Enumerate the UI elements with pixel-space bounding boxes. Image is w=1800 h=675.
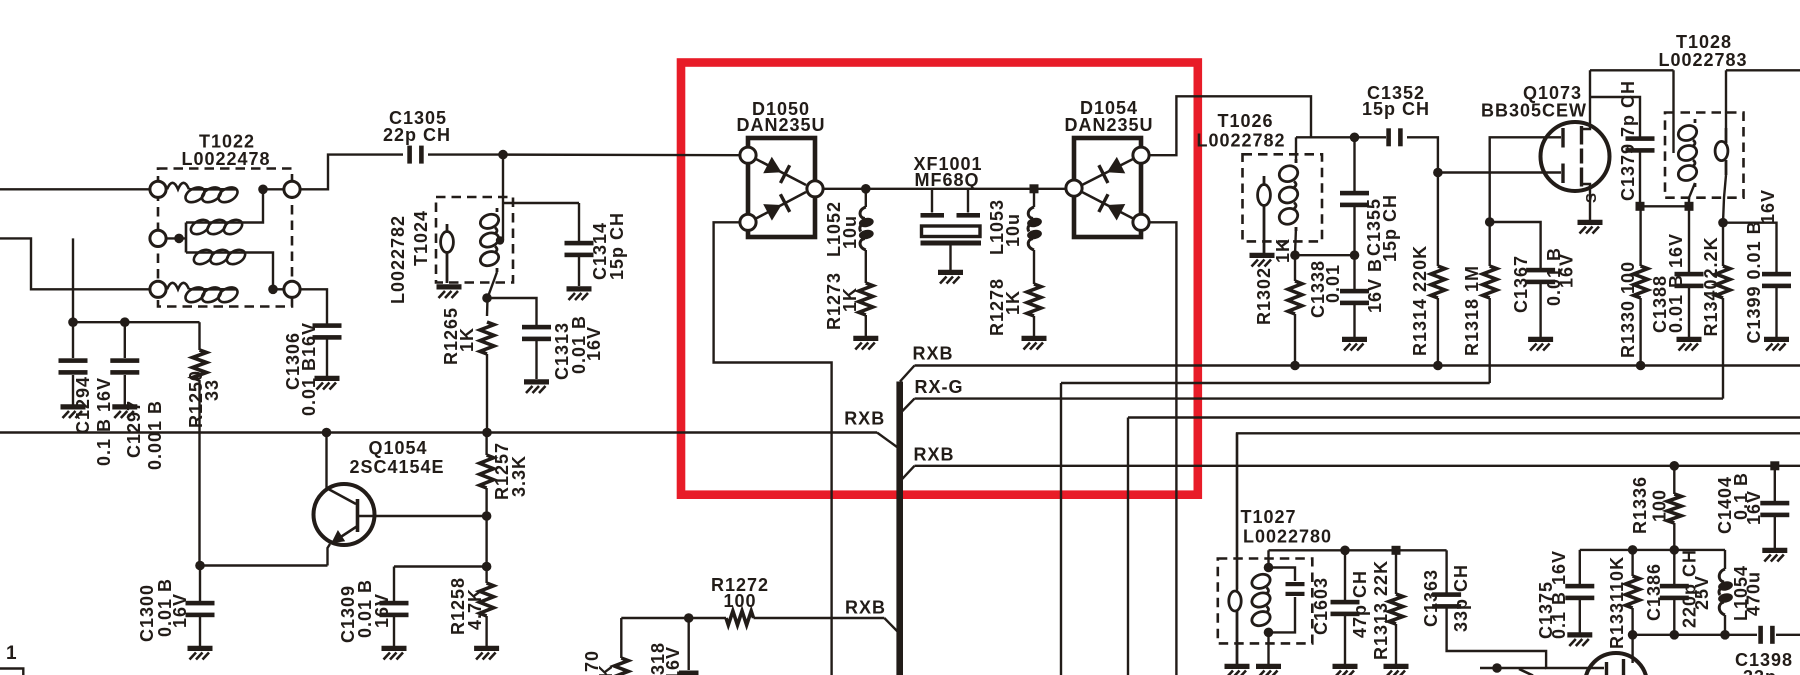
- bus thick RX line: [896, 382, 903, 675]
- svg-text:0.01 B 16V: 0.01 B 16V: [1666, 233, 1686, 333]
- svg-text:16V: 16V: [584, 326, 604, 361]
- transformer T1022 middle winding: [166, 237, 186, 239]
- wire C1379 node link: [1640, 205, 1689, 207]
- ground T1026: [1250, 255, 1275, 266]
- node dot bottom transistor: [1492, 663, 1502, 673]
- svg-text:16V: 16V: [170, 593, 190, 628]
- svg-text:10u: 10u: [1003, 213, 1023, 247]
- wire mid vertical net: [1060, 383, 1062, 675]
- svg-text:2SC4154E: 2SC4154E: [349, 457, 444, 477]
- svg-text:C1363: C1363: [1421, 569, 1441, 627]
- svg-text:L0022783: L0022783: [1658, 50, 1747, 70]
- wire vertical net x1128: [1127, 418, 1129, 675]
- svg-text:RXB: RXB: [844, 409, 885, 429]
- node dot C1318: [684, 613, 694, 623]
- wire Q1073 drain: [1582, 70, 1591, 129]
- svg-text:C1300: C1300: [137, 584, 157, 642]
- node square C1379 bottom: [1636, 202, 1645, 211]
- wire RXB bottom diagonal: [884, 618, 900, 635]
- svg-text:DAN235U: DAN235U: [736, 115, 825, 135]
- wire RX-G diagonal: [900, 399, 915, 414]
- node square C1404 top: [1770, 461, 1779, 470]
- transformer T1028 secondary loop: [1725, 70, 1727, 128]
- ground XF1001: [938, 272, 963, 283]
- wire T1028 top right: [1726, 69, 1800, 71]
- wire bias to C1367: [1490, 222, 1541, 268]
- node dot R1336 top: [1670, 461, 1680, 471]
- ground C1375: [1567, 635, 1592, 646]
- wire to R1270: [620, 618, 622, 658]
- wire to C1399: [1723, 223, 1777, 272]
- node dot L1052: [861, 184, 871, 194]
- svg-text:15p CH: 15p CH: [1380, 194, 1400, 262]
- wire T1027 output net: [1269, 549, 1447, 551]
- diode D1054 upper diode: [1082, 159, 1134, 186]
- sheet corner box: [0, 669, 23, 675]
- svg-text:R1302: R1302: [1254, 267, 1274, 325]
- wire horizontal net y417: [1128, 416, 1800, 418]
- node dot base net: [482, 511, 492, 521]
- svg-text:R1336: R1336: [1630, 476, 1650, 534]
- transformer T1024 primary loop: [446, 224, 449, 233]
- wire T1028 left lead: [1672, 70, 1674, 153]
- transformer T1026 secondary winding: [1277, 159, 1300, 231]
- node dot T1024 bottom: [482, 293, 492, 303]
- ground T1027 left: [1225, 666, 1250, 675]
- wire T1028 primary bottom: [1689, 183, 1695, 206]
- svg-text:33p: 33p: [1743, 667, 1777, 675]
- svg-text:RXB: RXB: [845, 598, 886, 618]
- node dot R1302 bottom: [1290, 361, 1300, 371]
- node dot L1054 bottom: [1720, 630, 1730, 640]
- node dot T1028 out: [1718, 218, 1728, 228]
- ground C1309: [382, 648, 407, 659]
- svg-text:BB305CEW: BB305CEW: [1481, 101, 1587, 121]
- diode D1050 upper diode: [755, 159, 806, 186]
- wire cap bank bus: [73, 321, 200, 323]
- transistor bottom partial emitter: [1519, 669, 1533, 675]
- transformer T1022 primary winding: [167, 183, 240, 205]
- node dot R1331 bottom: [1628, 630, 1638, 640]
- ground Q1073 source: [1578, 222, 1603, 233]
- node dot emitter-res net: [482, 562, 492, 572]
- terminal pins T1022: [150, 181, 166, 197]
- node dot R1331 top: [1628, 545, 1638, 555]
- svg-text:1K: 1K: [1273, 238, 1293, 263]
- svg-text:C1386: C1386: [1644, 563, 1664, 621]
- transformer T1028 dashed box: [1665, 113, 1744, 198]
- wire RX-G: [915, 397, 1724, 399]
- wire tap to C1314: [503, 202, 579, 204]
- svg-text:1K: 1K: [1003, 290, 1023, 315]
- diode D1050 pins: [740, 147, 756, 163]
- ground C1300: [188, 648, 213, 659]
- wire input second: [0, 238, 150, 289]
- svg-text:T1026: T1026: [1217, 111, 1273, 131]
- svg-text:RX-G: RX-G: [915, 377, 964, 397]
- wire emitter to C1300: [200, 564, 328, 566]
- node dot C1297: [120, 317, 130, 327]
- svg-text:10u: 10u: [840, 215, 860, 249]
- wire RXB-3: [915, 465, 1800, 467]
- node square T1028 bottom: [1685, 202, 1694, 211]
- wire T1028 secondary bottom: [1723, 175, 1726, 223]
- transformer T1027 primary loop: [1236, 433, 1238, 592]
- svg-text:R1314 220K: R1314 220K: [1410, 245, 1430, 356]
- svg-text:1K: 1K: [457, 327, 477, 352]
- svg-text:RXB: RXB: [913, 445, 954, 465]
- ground C1313: [524, 382, 549, 393]
- transformer T1024 secondary winding: [478, 208, 500, 272]
- wire T1022 out to C1306: [300, 289, 327, 324]
- wire T1024 secondary to node: [487, 272, 497, 316]
- wire R1272 net: [621, 617, 726, 619]
- node dot R1330 bottom: [1636, 361, 1646, 371]
- svg-text:T1028: T1028: [1676, 32, 1732, 52]
- svg-text:T1024: T1024: [411, 210, 431, 266]
- wire gate2: [1490, 137, 1561, 222]
- svg-text:DAN235U: DAN235U: [1064, 115, 1153, 135]
- node dot T1026 bottom: [1290, 250, 1300, 260]
- resistor R1330 body: [1639, 206, 1641, 266]
- ground C1314: [567, 289, 592, 300]
- transformer T1028 primary winding: [1676, 119, 1699, 187]
- wire long horizontal net: [0, 431, 877, 433]
- node dot T1027 top: [1264, 563, 1274, 573]
- svg-text:R133110K: R133110K: [1607, 556, 1627, 649]
- ground C1297: [112, 407, 137, 418]
- node dot R1314 bottom: [1433, 361, 1443, 371]
- diode D1054 pins: [1066, 180, 1082, 196]
- wire base: [358, 515, 487, 517]
- diode D1050 lower diode: [755, 192, 806, 219]
- ground C1399: [1764, 339, 1789, 350]
- transformer T1027 secondary winding: [1250, 568, 1272, 632]
- svg-text:L0022780: L0022780: [1243, 527, 1332, 547]
- wire bottom transistor base: [1480, 667, 1546, 669]
- transformer T1024 dashed box: [436, 197, 513, 283]
- ground R1258: [474, 648, 499, 659]
- wire RXB-1: [915, 364, 1800, 366]
- ground C1603: [1333, 666, 1358, 675]
- transformer T1027 dashed box: [1218, 559, 1313, 644]
- wire D1054 bottom-right long vertical: [1149, 222, 1176, 675]
- transformer T1026 dashed box: [1243, 154, 1323, 241]
- svg-text:16V: 16V: [1557, 253, 1577, 288]
- wire node to D1050: [503, 153, 740, 156]
- node square L1053: [1030, 184, 1039, 193]
- svg-text:22p CH: 22p CH: [383, 125, 451, 145]
- diode D1054 lower diode: [1082, 192, 1134, 219]
- svg-text:L0022782: L0022782: [388, 215, 408, 304]
- svg-text:RXB: RXB: [912, 344, 953, 364]
- ground T1027 right: [1256, 666, 1281, 675]
- wire RXB-1 diagonal: [900, 366, 915, 382]
- svg-text:C1603: C1603: [1311, 577, 1331, 635]
- diode D1054 package box: [1074, 138, 1141, 237]
- ground T1024: [437, 287, 462, 298]
- node dot C1603: [1340, 546, 1350, 556]
- svg-text:L0022478: L0022478: [181, 149, 270, 169]
- node dot T1024 feed: [496, 236, 504, 244]
- wire C1305 to node: [428, 153, 503, 155]
- node dot C1305 out: [498, 150, 508, 160]
- node dot C1355 bottom: [1350, 250, 1360, 260]
- filter XF1001: [931, 189, 933, 213]
- ground C1388: [1677, 339, 1702, 350]
- node dot T1022 primary: [258, 185, 268, 195]
- svg-text:100: 100: [1650, 489, 1670, 522]
- capacitor T1027 internal: [1269, 568, 1296, 582]
- wire gate2 return: [1061, 382, 1490, 384]
- svg-text:MF68Q: MF68Q: [914, 170, 979, 190]
- node dot T1027 bottom: [1264, 628, 1274, 638]
- ground R1278: [1022, 338, 1047, 349]
- wire node to C1313: [487, 298, 537, 327]
- wire C1352 to junction: [1407, 137, 1438, 172]
- svg-text:R1318 1M: R1318 1M: [1462, 265, 1482, 356]
- svg-text:15p CH: 15p CH: [607, 212, 627, 280]
- wire gate1: [1438, 171, 1561, 173]
- ground R1313: [1384, 666, 1409, 675]
- wire T1022 to C1305: [300, 155, 403, 190]
- node dot C1294: [68, 317, 78, 327]
- node dot emitter: [195, 561, 205, 571]
- diode D1050 package box: [748, 138, 815, 237]
- wire D1050 output: [823, 188, 1065, 190]
- svg-text:C1399 0.01 B: C1399 0.01 B: [1744, 220, 1764, 343]
- wire RXB-3 diagonal: [900, 466, 915, 482]
- svg-text:3.3K: 3.3K: [509, 455, 529, 497]
- transistor Q1054: [314, 484, 375, 545]
- wire node to C1355 node: [1295, 254, 1355, 256]
- svg-text:16V: 16V: [372, 593, 392, 628]
- wire corner net to T1027: [1237, 433, 1800, 589]
- node dot collector net: [322, 428, 332, 438]
- node dot C1386 top: [1670, 545, 1680, 555]
- wire input top-left: [0, 188, 151, 190]
- svg-text:0.1 B 16V: 0.1 B 16V: [94, 377, 114, 466]
- svg-text:1: 1: [6, 643, 18, 664]
- ground C1306: [315, 378, 340, 389]
- ground R1273: [853, 338, 878, 349]
- wire T1027 bottom lead: [1267, 628, 1269, 665]
- wire D1054 top-right to T1026: [1149, 96, 1311, 155]
- transformer T1026 primary loop: [1263, 176, 1266, 186]
- ground C1294: [61, 407, 86, 418]
- svg-text:S: S: [1583, 192, 1600, 203]
- node dot R1265-R1257 net: [482, 428, 492, 438]
- red highlight box: [681, 63, 1198, 495]
- node dot C1355 top: [1350, 133, 1360, 143]
- wire drain to T1028: [1590, 69, 1674, 71]
- node square R1313: [1392, 546, 1401, 555]
- wire T1027 top lead: [1267, 550, 1269, 572]
- node dot T1022 bottom: [268, 285, 278, 295]
- svg-text:4.7K: 4.7K: [465, 588, 485, 630]
- node dot T1022 middle tap: [174, 234, 184, 244]
- wire T1022 mid to cap bank: [72, 238, 74, 322]
- wire IF net y137: [1296, 136, 1386, 138]
- svg-text:16V: 16V: [1758, 189, 1778, 224]
- svg-text:15p CH: 15p CH: [1362, 99, 1430, 119]
- wire node down to T1024: [502, 155, 504, 240]
- node dot C1386 bottom: [1670, 630, 1680, 640]
- transistor Q1073: [1541, 122, 1610, 191]
- ground C1404: [1762, 550, 1787, 561]
- svg-text:33: 33: [202, 379, 222, 401]
- svg-text:470u: 470u: [1744, 571, 1764, 616]
- ground C1367: [1528, 339, 1553, 350]
- wire D1050 bottom-left to lower net: [714, 222, 832, 675]
- wire T1026 secondary top: [1295, 137, 1297, 163]
- wire C1309 link: [394, 565, 487, 567]
- svg-text:T1027: T1027: [1240, 507, 1296, 527]
- ground C1338: [1342, 339, 1367, 350]
- svg-text:0.1 B 16V: 0.1 B 16V: [1549, 550, 1569, 639]
- svg-text:0.01: 0.01: [1323, 264, 1343, 303]
- capacitor C1352: [1386, 128, 1402, 146]
- transformer T1022 dashed box: [158, 169, 292, 307]
- transformer T1022 bottom winding: [167, 283, 240, 305]
- wire T1026 secondary bottom: [1295, 227, 1296, 255]
- wire output net bottom: [1633, 634, 1757, 636]
- svg-text:16V: 16V: [1744, 490, 1764, 525]
- svg-text:33p CH: 33p CH: [1451, 564, 1471, 632]
- wire Q1073 source: [1582, 184, 1591, 221]
- svg-text:25V: 25V: [1692, 575, 1712, 610]
- svg-text:0.001 B: 0.001 B: [145, 400, 165, 470]
- wire mixer supply net: [1580, 549, 1725, 551]
- transistor Q bottom partial: [1585, 653, 1647, 675]
- svg-text:L0022782: L0022782: [1196, 131, 1285, 151]
- node dot gate2 bias: [1485, 217, 1495, 227]
- wire diagonal into RX bus: [877, 433, 897, 448]
- node dot gate1 junction: [1433, 168, 1443, 178]
- svg-text:Q1054: Q1054: [368, 438, 427, 458]
